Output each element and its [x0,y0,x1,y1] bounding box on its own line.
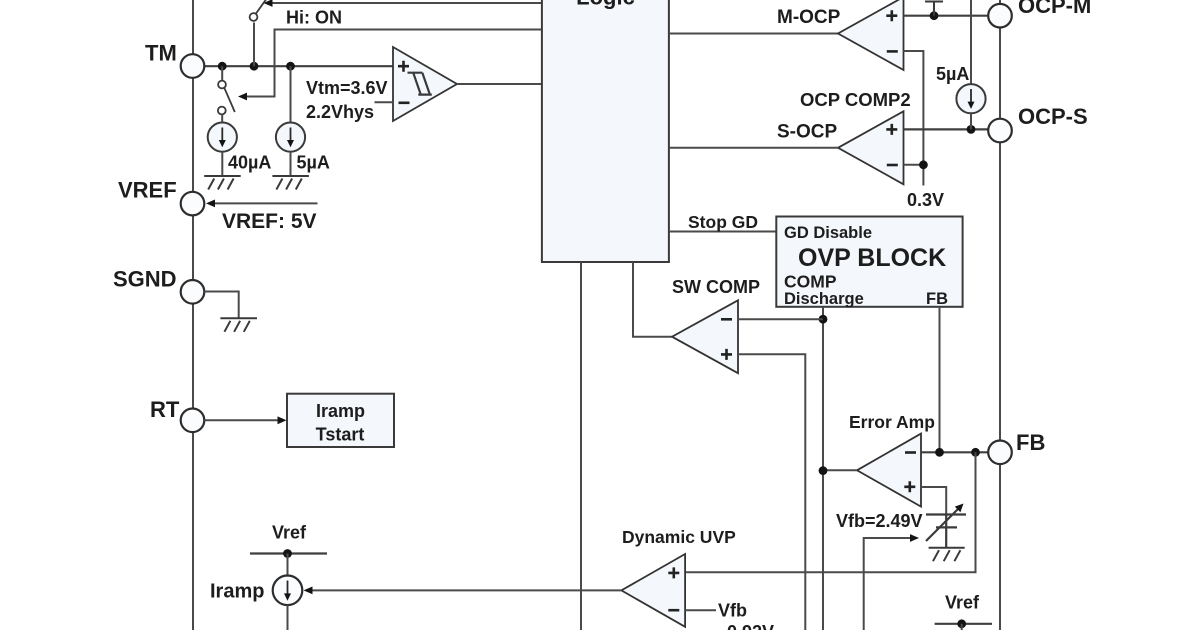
arrowhead into Iramp source [304,587,313,595]
wire Iramp adjust arrow [864,538,912,630]
wire RT to block [204,419,278,421]
wire switch S2 stem [221,66,223,80]
svg-text:Dynamic UVP: Dynamic UVP [622,527,736,547]
node Vref bottom [957,619,966,628]
node COMP/SWCOMP [819,315,828,324]
U4 minus input [721,318,732,321]
node OCP-S net [967,125,976,134]
U2 minus input [887,50,898,53]
svg-text:OVP BLOCK: OVP BLOCK [798,244,946,272]
wire right pin rail [999,0,1001,630]
svg-text:40µA: 40µA [228,153,271,173]
wire COMP discharge vertical [822,307,824,630]
svg-text:Logic: Logic [576,0,635,10]
wire OVP FB terminal down [939,307,941,453]
svg-text:5µA: 5µA [936,64,969,84]
wire U2 plus to OCP-M pin [904,15,990,17]
wire I3 to OCP-S net [970,113,972,129]
svg-text:OCP-M: OCP-M [1018,0,1091,18]
ground G1 [204,176,241,190]
pin FB [988,441,1012,465]
svg-text:VREF: 5V: VREF: 5V [222,210,317,233]
wire U2 minus to 0.3V net [904,51,924,186]
wire FB to Dynamic UVP plus [685,452,975,572]
wire 5uA source feed [970,0,972,84]
svg-text:2.2Vhys: 2.2Vhys [306,102,374,122]
U1 plus input [398,61,409,72]
block OVP BLOCK [776,217,962,307]
wire Iramp source down [287,605,289,630]
svg-text:M-OCP: M-OCP [777,7,841,28]
svg-text:5µA: 5µA [297,153,330,173]
svg-text:Tstart: Tstart [316,425,365,445]
arrowhead Iramp adjust [910,534,919,542]
pin OCP-M [988,4,1012,28]
svg-text:Iramp: Iramp [210,581,264,603]
wire U6 output to Iramp source [312,589,621,591]
svg-text:Vref: Vref [272,523,307,543]
arrowhead S1 control [264,0,273,7]
U1 minus input [399,102,410,105]
svg-text:FB: FB [926,290,948,308]
wire Stop GD [669,231,776,233]
U5 plus input [904,481,915,492]
comparator U2 M-OCP [838,0,904,70]
U5 minus input [905,451,916,454]
node TM junction 1 [218,62,227,71]
node Vref/Iramp [283,549,292,558]
svg-text:OCP COMP2: OCP COMP2 [800,89,911,110]
comparator U4 SW COMP [672,300,738,373]
wire Vref to Iramp source [287,554,289,576]
U6 plus input [668,567,679,578]
pin VREF [181,192,205,216]
wire U4 plus down long [738,354,805,630]
switch S2 (40uA disconnect) [218,81,235,115]
current source I1 40uA [208,123,237,152]
wire S2 to current source [221,115,223,123]
wire U5 plus to Vfb reference [921,487,946,515]
wire Logic to S-OCP [669,147,838,149]
wire TM net horizontal [204,65,393,67]
wire U3 plus to OCP-S pin [904,128,990,130]
groups get filled in [193,0,1000,630]
svg-text:Stop GD: Stop GD [688,212,758,232]
node COMP/ErrAmp output [819,466,828,475]
wire stub above node (cut symbol) [925,2,943,16]
ground G2 [272,176,309,190]
svg-text:TM: TM [145,41,177,66]
svg-text:OCP-S: OCP-S [1018,104,1088,129]
wire U1 output to Logic [457,83,542,85]
wire TM to current source I2 [290,66,292,122]
node FB/OVP [935,448,944,457]
U1 hysteresis icon [408,73,432,95]
svg-text:Hi: ON: Hi: ON [286,8,342,28]
U3 plus input [886,124,897,135]
block Logic [542,0,669,262]
adjustable reference Vfb [926,509,966,548]
svg-text:Vfb=2.49V: Vfb=2.49V [836,511,923,531]
wire U3 minus stub [904,164,924,166]
svg-text:RT: RT [150,397,180,422]
svg-text:VREF: VREF [118,178,177,203]
comparator U6 Dynamic UVP [621,554,685,627]
svg-text:SGND: SGND [113,267,177,292]
wire I2 to ground [290,152,292,176]
node TM junction 2 [250,62,259,71]
wire Vref bar [250,552,327,554]
wire Logic to SW COMP output [633,262,672,337]
node 0.3V net [919,160,928,169]
wire Logic bottom long [580,262,582,630]
svg-text:0.92V: 0.92V [727,622,774,630]
svg-text:0.3V: 0.3V [907,190,944,210]
wire U5 output to COMP net [823,469,857,471]
wire U6 minus stub [685,609,716,611]
comparator U3 S-OCP [838,111,904,184]
arrowhead RT [278,416,287,424]
svg-text:Error Amp: Error Amp [849,412,935,432]
block Iramp/Tstart [287,394,394,447]
wire VREF arrow line [213,202,318,204]
node OCP-M net [930,11,939,20]
U3 minus input [887,164,898,167]
switch S1 (top, logic controlled) [250,0,269,21]
pin SGND [181,280,205,304]
U6 minus input [668,609,679,612]
ground G4 [929,548,965,562]
svg-text:FB: FB [1016,430,1045,455]
svg-text:Vref: Vref [945,593,980,613]
node FB/UVP [971,448,980,457]
U1 minus stub wire [375,101,394,103]
wire left pin rail [192,0,194,630]
svg-text:Vfb: Vfb [718,601,747,621]
pin OCP-S [988,119,1012,143]
wire S1 control from Logic [272,2,542,4]
pin RT [181,409,205,433]
current source I2 5uA [276,123,305,152]
U2 plus input [886,10,897,21]
svg-text:Iramp: Iramp [316,401,365,421]
wire Logic to M-OCP [669,33,838,35]
wire U4 minus to COMP net [738,318,823,320]
svg-text:Discharge: Discharge [784,290,864,308]
svg-text:S-OCP: S-OCP [777,122,838,143]
wire SGND to ground [204,292,238,319]
svg-text:SW COMP: SW COMP [672,277,760,297]
ground G3 [220,318,257,332]
arrowhead VREF [206,200,215,208]
svg-text:GD Disable: GD Disable [784,224,872,242]
pin TM [181,54,205,78]
wire S2 control from Logic [245,30,542,97]
wire Vref bar bottom [935,623,992,625]
U4 plus input [721,349,732,360]
svg-text:Vtm=3.6V: Vtm=3.6V [306,78,388,98]
wire I1 to ground [221,152,223,176]
wire switch S1 stem [253,23,255,67]
node TM junction 3 [286,62,295,71]
svg-text:COMP: COMP [784,272,837,292]
current source I3 5uA [956,84,985,113]
comparator U1 TM threshold [393,47,457,121]
current source I4 Iramp [273,576,303,606]
wire U5 minus to FB pin [921,451,989,453]
arrowhead adjustable [955,504,964,513]
op-amp U5 Error Amp [857,434,921,507]
arrowhead S2 control [238,93,247,101]
wire Vref node down [961,624,963,630]
